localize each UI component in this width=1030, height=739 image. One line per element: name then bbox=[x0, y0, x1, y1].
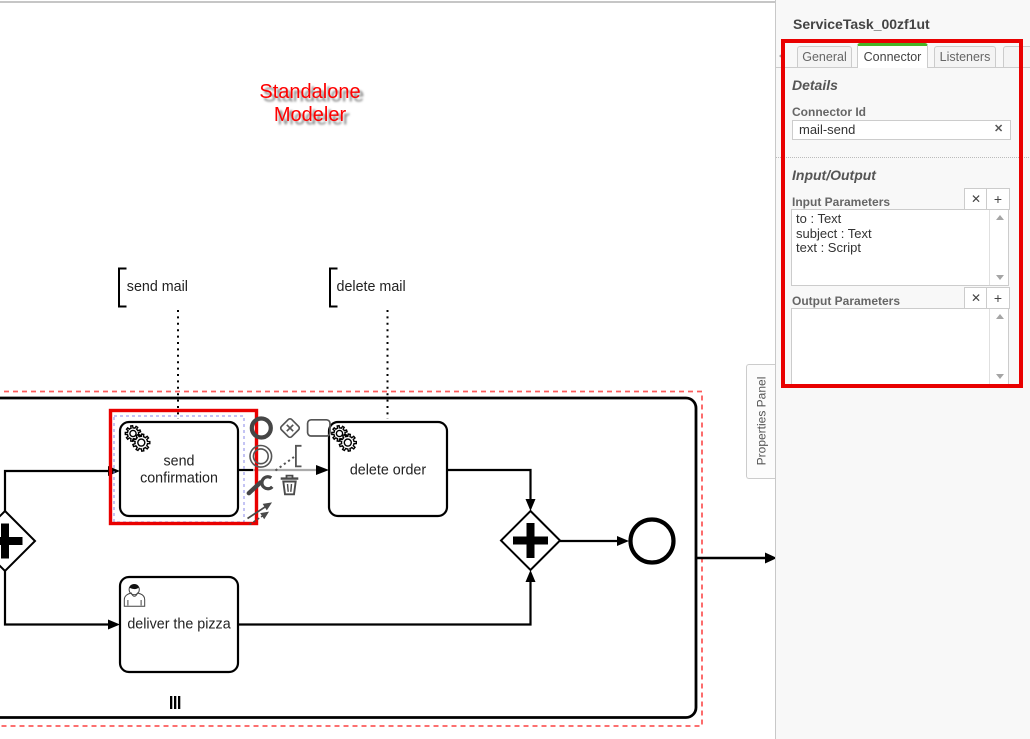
Details heading bbox=[792, 77, 838, 93]
red dashed selection around pool bbox=[0, 392, 702, 727]
tab bar bottom border bbox=[776, 67, 1030, 68]
tab scroll left caret bbox=[779, 52, 784, 60]
task delete order bbox=[329, 422, 447, 516]
properties panel side tab bbox=[746, 364, 775, 479]
association dotted line to send confirmation bbox=[177, 310, 179, 419]
service gear icon T2 bbox=[332, 426, 357, 452]
context pad: intermediate event icon bbox=[250, 446, 272, 468]
participant multi-instance marker bbox=[170, 696, 180, 709]
tab scroll right caret bbox=[1026, 52, 1030, 60]
tab partial (clipped) bbox=[1003, 46, 1030, 67]
task deliver the pizza bbox=[120, 577, 238, 672]
wire send confirmation to delete order bbox=[238, 465, 329, 475]
input clear x bbox=[994, 122, 1003, 135]
red annotation rectangle around send confirmation bbox=[111, 411, 257, 524]
panel title bbox=[793, 16, 930, 32]
wire gateway2 to end event bbox=[560, 536, 629, 546]
service gear icon T1 bbox=[125, 426, 150, 452]
pool bbox=[0, 398, 696, 718]
svg-text:delete mail: delete mail bbox=[337, 279, 406, 295]
wire out of pool bbox=[697, 553, 777, 564]
context pad: wrench icon bbox=[249, 477, 272, 493]
end event bbox=[631, 520, 674, 563]
dotted separator bbox=[776, 157, 1030, 158]
Input Parameters label bbox=[792, 195, 890, 209]
Connector Id label bbox=[792, 105, 866, 119]
gateway G2 parallel join bbox=[501, 511, 560, 570]
Connector Id input bbox=[792, 120, 1011, 140]
association dotted line to delete order bbox=[387, 310, 389, 419]
output parameters listbox bbox=[791, 308, 1009, 385]
context pad: gateway icon bbox=[280, 418, 301, 439]
svg-text:send mail: send mail bbox=[127, 279, 188, 295]
svg-text:deliver the pizza: deliver the pizza bbox=[127, 617, 230, 633]
context pad: trash icon bbox=[281, 476, 299, 495]
wire gateway1 to send confirmation bbox=[5, 466, 120, 512]
wire gateway1 to deliver the pizza bbox=[5, 570, 120, 630]
user icon T3 bbox=[124, 584, 144, 606]
output params buttons x + bbox=[964, 287, 988, 309]
tab Listeners bbox=[934, 46, 996, 67]
context pad: connect arrows icon bbox=[248, 503, 272, 525]
properties panel bbox=[775, 0, 1030, 739]
svg-text:confirmation: confirmation bbox=[140, 470, 218, 486]
red annotation rectangle around panel bbox=[781, 39, 1023, 388]
tab General bbox=[797, 46, 852, 67]
Input/Output heading bbox=[792, 167, 876, 183]
wire delete order to gateway2 bbox=[447, 470, 536, 511]
svg-text:send: send bbox=[163, 454, 194, 470]
blue dashed selection outline around task bbox=[114, 416, 244, 522]
canvas top border line bbox=[0, 1, 775, 3]
wire deliver the pizza to gateway2 bbox=[238, 570, 536, 625]
task send confirmation bbox=[120, 422, 238, 516]
text annotation delete mail bbox=[330, 269, 406, 307]
svg-text:delete order: delete order bbox=[350, 463, 427, 479]
gateway G1 parallel split bbox=[0, 511, 35, 571]
text annotation send mail bbox=[119, 269, 188, 307]
red annotation text Standalone Modeler bbox=[160, 81, 460, 127]
context pad: end event icon bbox=[252, 419, 271, 438]
input params buttons x + bbox=[964, 188, 988, 210]
input parameters listbox bbox=[791, 209, 1009, 286]
tab Connector (active) bbox=[857, 43, 928, 68]
Output Parameters label bbox=[792, 294, 900, 308]
context pad: task icon bbox=[308, 420, 330, 436]
context pad: text annotation icon bbox=[276, 446, 302, 471]
